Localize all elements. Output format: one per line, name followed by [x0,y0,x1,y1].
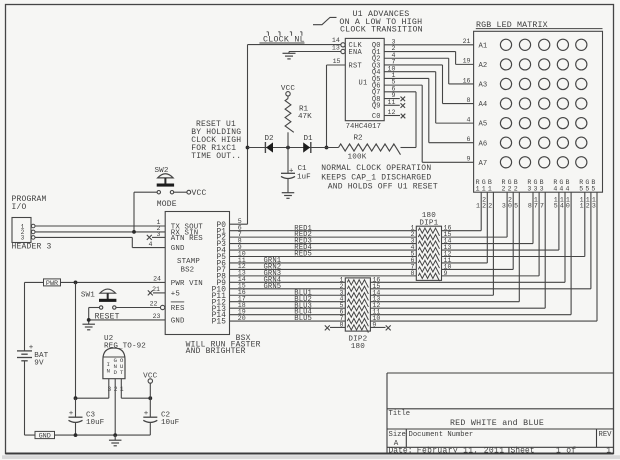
svg-text:1: 1 [580,203,584,210]
svg-text:8: 8 [467,97,471,104]
DIP2 label [348,336,367,352]
svg-text:5: 5 [591,185,595,192]
svg-text:4: 4 [553,185,557,192]
resistor network DIP2 180 body [345,278,370,331]
wire Q7 to R2 [384,91,416,93]
matrix column pin numbers [476,197,596,210]
BS2 +5 no-connect stub [148,290,165,295]
svg-text:A1: A1 [479,42,488,50]
wire matrix B1 column to resistor network [492,192,494,295]
resistor network DIP1 180 body [416,226,441,280]
resistor R2 100K [339,135,417,162]
svg-text:R2: R2 [354,135,364,143]
svg-text:21: 21 [152,286,160,293]
wire regulator OUT leg [121,379,150,399]
svg-text:4: 4 [559,185,563,192]
wire matrix R1 column to resistor network [480,192,482,230]
wire reset line [248,147,339,149]
svg-text:16: 16 [463,77,471,84]
svg-text:+: + [289,167,294,175]
junction SW2 RX [132,230,136,234]
RGB LED matrix title [476,21,603,30]
svg-text:SW1: SW1 [81,292,95,300]
svg-text:D2: D2 [265,135,275,143]
svg-text:4: 4 [560,203,564,210]
svg-text:GRN5: GRN5 [264,283,282,291]
svg-text:2: 2 [586,203,590,210]
wire Q6 to matrix A7 [384,84,422,86]
svg-text:5: 5 [554,203,558,210]
BS2 ATN no-connect stub [147,235,165,240]
U1 RST pin 15 stub [327,64,346,66]
svg-text:4: 4 [467,116,471,123]
svg-text:4: 4 [149,241,153,248]
junction RST / reset line [325,146,329,150]
ground under C1 [282,193,295,199]
matrix column labels RGB [476,179,596,192]
svg-text:STAMP: STAMP [177,258,200,266]
svg-text:1: 1 [606,446,611,455]
wire SW2 left to RX [134,192,157,232]
wire matrix G5 column to resistor network [590,192,592,289]
capacitor C1 1uF [281,148,311,193]
svg-text:T: T [120,369,124,376]
wire PWR down to regulator [75,282,77,398]
svg-text:P15: P15 [212,319,227,327]
svg-text:2: 2 [482,203,486,210]
net label GND [35,431,55,440]
wire P1 net RED1 [230,230,417,232]
wire header pin1 to TX [35,225,165,227]
DIP2 unused pin 9 stub [370,325,390,330]
wire matrix B4 column to resistor network [570,192,572,314]
svg-text:A2: A2 [479,62,488,70]
BS2 right pin numbers 5-20 [238,218,246,322]
svg-text:HEADER 3: HEADER 3 [12,242,52,251]
svg-text:+5: +5 [171,291,180,299]
wire P12 net BLU2 [230,301,346,303]
svg-text:5: 5 [585,185,589,192]
svg-text:8: 8 [528,203,532,210]
net labels GRN1-GRN5 [264,257,282,291]
svg-text:3: 3 [592,203,596,210]
connector J1 HEADER 3 body [12,218,35,243]
wire matrix B5 column to resistor network [596,192,598,321]
svg-text:5: 5 [579,185,583,192]
wire matrix G2 column to resistor network [512,192,514,269]
svg-text:D1: D1 [304,135,314,143]
svg-text:4: 4 [566,185,570,192]
svg-text:+: + [29,344,34,352]
capacitor C3 10uF [69,398,105,435]
wire matrix R5 column to resistor network [584,192,586,256]
power VCC at R1 [281,85,296,96]
U1 ENA pin 13 bubble and ground [341,49,345,53]
note reset U1 text [191,120,241,161]
svg-text:AND BRIGHTER: AND BRIGHTER [186,347,246,356]
wire P6 net GRN1 [230,262,417,264]
wire clock line P0 to U1 CLK [248,44,341,46]
svg-text:PWR: PWR [46,280,58,288]
ic BS2 stamp body [165,212,229,335]
wire P9 net GRN4 [230,281,346,283]
svg-text:47K: 47K [298,113,312,121]
svg-text:N: N [106,367,110,374]
DIP1 label [419,212,438,228]
svg-text:Sheet: Sheet [511,446,535,455]
svg-text:9: 9 [467,156,471,163]
svg-text:Q9: Q9 [372,103,381,111]
svg-text:VCC: VCC [192,189,207,198]
svg-text:RED WHITE and BLUE: RED WHITE and BLUE [450,418,544,428]
net label PWR [25,279,166,288]
svg-text:23: 23 [153,313,161,320]
svg-text:0: 0 [566,203,570,210]
power VCC at regulator [143,373,158,399]
svg-text:REV: REV [599,431,613,439]
wire matrix G1 column to resistor network [486,192,488,263]
diode D1 [303,135,313,153]
wire P14 net BLU4 [230,314,346,316]
U1 pin name labels [349,42,381,121]
wire matrix R2 column to resistor network [506,192,508,237]
BS2 RES pin bubble [160,305,164,309]
regulator U2 REG TO-92 [103,335,146,393]
DIP2 pin numbers [340,276,381,328]
clock edge annotation [313,10,423,34]
svg-text:GND: GND [39,432,51,440]
wire Q3 to matrix A4 [384,64,442,66]
wire Q4 to matrix A5 [384,71,436,73]
svg-text:0: 0 [508,203,512,210]
svg-text:KEEPS CAP_1 DISCHARGED: KEEPS CAP_1 DISCHARGED [321,174,431,183]
junction reset line / clock vertical [246,146,250,150]
wire Q0 to matrix A1 [384,44,473,46]
wire P7 net GRN2 [230,268,417,270]
title block frame [387,373,614,454]
svg-text:1: 1 [488,185,492,192]
wire matrix R3 column to resistor network [532,192,534,243]
wire SW2 right to VCC [174,191,187,193]
RGB LED matrix body [474,31,603,192]
wire P8 net GRN3 [230,275,417,277]
junction C3 rail [74,433,78,437]
svg-text:24: 24 [153,276,161,283]
wire matrix G3 column to resistor network [538,192,540,276]
wire regulator IN leg [76,379,109,399]
note program I/O text [12,195,47,212]
BS2 pin name labels [171,222,226,327]
svg-text:3: 3 [527,185,531,192]
svg-text:19: 19 [463,58,471,65]
svg-text:7: 7 [540,203,544,210]
svg-text:+: + [144,410,149,418]
svg-text:CLOCK TRANSITION: CLOCK TRANSITION [340,25,423,34]
svg-text:REG_TO-92: REG_TO-92 [104,343,146,351]
junction regulator gnd rail [113,433,117,437]
svg-text:ENA: ENA [349,49,363,57]
svg-text:AND HOLDS OFF U1 RESET: AND HOLDS OFF U1 RESET [328,183,438,192]
resistor R1 47K [285,96,312,148]
svg-text:1uF: 1uF [297,174,311,182]
wire P10 net GRN5 [230,288,346,290]
U1 CLK pin 14 bubble [341,43,345,47]
junction SW1 GND [87,318,91,322]
svg-text:5: 5 [514,203,518,210]
junction C3 node [74,396,78,400]
svg-text:PWR VIN: PWR VIN [171,280,203,288]
wire matrix R4 column to resistor network [558,192,560,250]
svg-text:1 of: 1 of [556,446,576,455]
svg-text:2: 2 [502,185,506,192]
U1 output pin numbers [388,38,396,116]
ground under SW1 [82,324,95,330]
svg-text:13: 13 [332,45,340,52]
wire P4 net RED4 [230,249,417,251]
wire SW1 left to ground [89,308,100,325]
svg-text:VCC: VCC [143,373,158,381]
svg-text:Date:: Date: [389,446,413,455]
U1 unused pins Q8 Q9 C0 [384,97,405,119]
junction PWR branch [74,281,78,285]
svg-text:Title: Title [389,410,411,418]
op-amp U1 74HC4017 body [345,38,384,120]
svg-text:21: 21 [463,38,471,45]
wire P13 net BLU3 [230,307,346,309]
wire P15 net BLU5 [230,320,346,322]
wire clock vertical to P0 [247,45,249,225]
svg-text:20: 20 [238,315,246,322]
svg-text:A4: A4 [479,101,488,109]
wire BS2 GND 23 [89,319,166,321]
svg-text:GND: GND [171,245,185,253]
DIP2 unused pin 8 stub [325,325,346,330]
wire P2 net RED2 [230,236,417,238]
svg-text:1: 1 [476,185,480,192]
matrix row pin numbers [463,38,471,162]
svg-text:C1: C1 [298,165,308,173]
wire header pin3 to GND pin4 [35,237,165,247]
svg-text:D: D [113,369,117,376]
wire P11 net BLU1 [230,294,346,296]
wire Q2 to matrix A3 [384,57,449,59]
capacitor C2 10uF [143,398,179,435]
svg-text:10uF: 10uF [161,419,180,427]
net label CLOCK NL [259,32,304,45]
svg-text:RES: RES [171,305,185,313]
svg-text:180: 180 [351,343,366,351]
svg-text:2: 2 [508,185,512,192]
svg-text:A5: A5 [479,121,488,129]
svg-text:MODE: MODE [157,200,177,209]
note BSX will run faster text [186,334,261,356]
svg-text:1: 1 [476,203,480,210]
ground under regulator [109,440,122,446]
svg-text:I/O: I/O [12,203,27,212]
title block text [389,410,613,455]
wire regulator GND leg [114,379,116,435]
svg-text:1: 1 [482,185,486,192]
svg-text:100K: 100K [348,154,367,162]
wire RST vertical to reset line [326,65,328,148]
LED matrix circles [500,39,587,168]
BS2 left pin numbers [149,219,162,320]
svg-text:3: 3 [540,185,544,192]
svg-text:2: 2 [514,185,518,192]
svg-text:3: 3 [534,185,538,192]
svg-text:15: 15 [333,58,341,65]
svg-text:Size: Size [389,431,406,439]
svg-text:U1: U1 [359,79,368,87]
svg-text:RED5: RED5 [294,251,312,259]
diode D2 [265,135,275,153]
junction R1 C1 node [286,146,290,150]
svg-text:9V: 9V [34,360,44,368]
svg-text:14: 14 [332,37,340,44]
svg-text:GND: GND [171,318,185,326]
wire header pin2 to RX [35,231,165,233]
svg-text:TIME OUT..: TIME OUT.. [191,152,241,161]
svg-text:3: 3 [502,203,506,210]
net labels BLU1-BLU5 [294,289,312,323]
svg-text:ATN RES: ATN RES [171,235,204,243]
switch SW2 MODE [155,167,177,209]
matrix row labels A1-A7 [479,42,488,167]
svg-text:DIP1: DIP1 [419,220,438,228]
DIP1 resistor elements [418,228,439,281]
svg-text:BLU5: BLU5 [294,315,312,323]
note normal clock operation text [321,164,438,192]
battery BAT 9V [17,282,49,435]
power VCC at SW2 [187,189,207,198]
svg-text:6: 6 [467,136,471,143]
wire matrix B2 column to resistor network [518,192,520,302]
wire P5 net RED5 [230,256,417,258]
svg-text:A6: A6 [479,140,488,148]
svg-text:2: 2 [488,203,492,210]
svg-text:Document Number: Document Number [409,431,474,439]
wire matrix G4 column to resistor network [564,192,566,282]
wire P3 net RED3 [230,243,417,245]
svg-text:9: 9 [444,270,448,277]
net labels RED1-RED5 [294,225,312,259]
svg-text:February 11, 2011: February 11, 2011 [417,446,505,455]
svg-text:3: 3 [21,235,25,242]
DIP1 pin numbers [411,225,452,277]
junction C2 node [148,396,152,400]
wire matrix B3 column to resistor network [544,192,546,308]
wire ground rail [25,434,151,436]
DIP2 resistor elements [347,280,368,333]
svg-text:3: 3 [108,386,112,393]
wire SW1 right to RES [116,307,161,309]
svg-text:NORMAL CLOCK OPERATION: NORMAL CLOCK OPERATION [321,164,431,173]
svg-text:7: 7 [534,203,538,210]
svg-text:A3: A3 [479,82,488,90]
svg-text:74HC4017: 74HC4017 [346,123,381,131]
svg-text:C0: C0 [372,113,381,121]
svg-text:RST: RST [349,62,363,70]
switch SW1 RESET [81,289,120,321]
svg-text:+: + [69,410,74,418]
wire Q5 to matrix A6 [384,77,429,79]
svg-text:22: 22 [150,301,158,308]
svg-text:A7: A7 [479,160,488,168]
wire Q1 to matrix A2 [384,51,455,53]
svg-text:10uF: 10uF [86,419,105,427]
svg-text:BS2: BS2 [181,266,195,274]
